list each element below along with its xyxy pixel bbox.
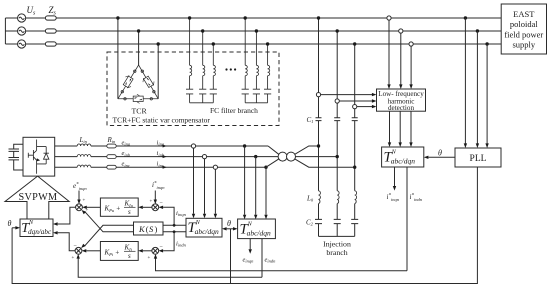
current direction arrow phase b: [163, 155, 167, 158]
current sensor circle column b: [335, 99, 339, 103]
node dot TCR a: [116, 16, 119, 19]
current sensor circle column c: [353, 105, 357, 109]
svg-text:abc/dqn: abc/dqn: [195, 227, 219, 236]
wire i*inqn into U2: [154, 191, 156, 201]
wire bus phase b: [56, 30, 501, 32]
SVPWM block arrow: [5, 176, 69, 219]
wire T1 d output to K(S): [163, 231, 186, 233]
voltage tap dot line c: [264, 166, 267, 169]
FC group1 coil b: [203, 65, 205, 75]
svg-text:abc/dqn: abc/dqn: [391, 157, 415, 166]
current direction arrow phase c: [163, 166, 167, 169]
summing junction U2 (q-axis current error): [152, 204, 159, 211]
node dot i_inqn branch: [173, 224, 176, 227]
node dot i_indn branch: [173, 230, 176, 233]
summing junction U3 (d-axis voltage sum): [75, 247, 82, 254]
node dot TCR b: [137, 29, 140, 32]
node dot FC2 b: [255, 29, 258, 32]
source Us phase b: [18, 27, 26, 35]
wire T1 q output to K(S): [163, 224, 186, 226]
wire converter output phase a: [55, 145, 268, 147]
wire e*inqn into U1: [78, 191, 80, 201]
wire theta into Tdqn/abc: [12, 227, 16, 229]
svg-text:+: +: [86, 209, 89, 214]
svg-text:PLL: PLL: [470, 154, 487, 164]
voltage tap dot line b: [254, 155, 257, 158]
wire i_inqn up to U2: [163, 207, 174, 225]
wire injection bottom bar: [319, 235, 355, 237]
wire fan left bottom: [266, 159, 279, 167]
svg-text:TCR+FC static var compensator: TCR+FC static var compensator: [113, 116, 211, 125]
wire tap a down to T2: [244, 146, 246, 215]
svg-text:field power: field power: [504, 30, 543, 40]
wire sensor b down to T1: [204, 159, 206, 214]
current sensor circle line b: [202, 155, 206, 159]
wire e_indn feedforward to U3: [78, 258, 262, 277]
impedance Zs phase c: [45, 42, 56, 46]
voltage tap dot line a: [243, 144, 246, 147]
wire tap c down to T2: [265, 167, 267, 215]
transformer windings: [278, 152, 287, 161]
capacitor C1 column c: [352, 118, 358, 121]
transform block Tdqn/abc: [20, 219, 53, 237]
TCR delta reactor-thyristor assembly: [118, 65, 158, 103]
dc-link capacitor upper: [9, 149, 20, 151]
wire phase a to Zs: [26, 17, 46, 19]
svg-text:+: +: [150, 200, 153, 205]
node dot TCR c: [157, 42, 160, 45]
voltage tap circle bus b: [399, 29, 403, 33]
PI controller block d-axis: [100, 242, 138, 261]
dc-link wire middle: [13, 151, 15, 157]
node dot FC1 a: [188, 16, 191, 19]
block PLL: [455, 148, 501, 167]
wire theta PLL to Tabc/dqn: [429, 156, 456, 158]
wire U3 output to Tdqn/abc: [58, 233, 76, 251]
node dot FC2 a: [244, 16, 247, 19]
voltage tap circle bus c: [409, 42, 413, 46]
node: left source bus vertical: [4, 18, 6, 44]
impedance Zs phase b: [45, 29, 56, 33]
wire converter output phase b: [55, 156, 278, 158]
wire e_inqn output arrow: [249, 239, 251, 250]
wire bus phase c: [56, 43, 501, 45]
wire U2 to PI q-axis: [143, 206, 152, 208]
svg-text:dqn/abc: dqn/abc: [28, 228, 52, 236]
capacitor C1 column b: [334, 118, 340, 121]
thyristor pair bottom leg: [133, 94, 143, 103]
svg-text:poloidal: poloidal: [510, 19, 538, 29]
wire sensor a to harmonic detection: [321, 94, 373, 96]
node dot injection a: [317, 16, 320, 19]
FC group1 coil c: [213, 65, 215, 75]
PI controller block q-axis: [100, 198, 138, 216]
wire TCR drop phase b: [138, 31, 140, 65]
svg-text:θ: θ: [8, 219, 12, 228]
node dot PLL c: [485, 42, 488, 45]
node dot PLL a: [464, 16, 467, 19]
injection branch column c vertical: [354, 44, 356, 236]
wire bus phase a: [56, 17, 501, 19]
injection branch column b vertical: [336, 31, 338, 236]
node dot injection b: [336, 29, 339, 32]
wire reference i*indn down: [406, 167, 408, 271]
svg-text:θ: θ: [227, 219, 231, 228]
wire sensor c to harmonic detection: [357, 106, 372, 108]
wire PLL input a: [464, 18, 466, 144]
source Us phase a: [18, 14, 26, 22]
node dot line a to column a: [317, 144, 320, 147]
svg-text:θ: θ: [438, 149, 442, 158]
block: low-frequency harmonic detection: [377, 89, 426, 111]
FC filter branch group 2: [242, 18, 272, 103]
wire converter output phase c: [55, 166, 266, 168]
svg-text:detection: detection: [388, 104, 414, 112]
wire tap b down to T2: [255, 157, 257, 215]
inductor L0 column a: [319, 191, 321, 204]
svg-text:s: s: [128, 252, 131, 260]
svg-text:abc/dqn: abc/dqn: [247, 229, 271, 238]
wire source stubs: [5, 18, 17, 44]
current sensor circle column a: [316, 93, 320, 97]
wire sensor c down to T1: [214, 169, 216, 214]
dc-link wire top: [14, 144, 23, 149]
wire tap c down to harmonic detection: [410, 46, 412, 84]
impedance Zs phase a: [45, 16, 56, 20]
wire PLL input b: [476, 31, 478, 144]
capacitor C2 column b: [334, 219, 341, 223]
transform block T1 abc/dqn (current measure): [186, 218, 222, 237]
inductor L0 column c: [355, 191, 357, 204]
wire harmonic detection outputs to Tabc/dqn: [390, 111, 412, 142]
node dot injection c: [353, 42, 356, 45]
wire K(S) q output cross-coupled to U3: [85, 225, 134, 246]
resistor Rin phase b: [107, 155, 116, 159]
dashed box: TCR+FC static var compensator: [107, 52, 279, 126]
node dot PLL b: [476, 29, 479, 32]
capacitor C2 column c: [351, 219, 358, 223]
injection branch column a vertical: [318, 18, 320, 236]
node dot line c to column c: [353, 166, 356, 169]
svg-text:branch: branch: [326, 248, 347, 257]
freewheel diode D1: [37, 147, 49, 164]
svg-text:+: +: [72, 256, 75, 261]
wire TCR drop phase c: [157, 44, 159, 99]
wire PI q-axis to U1: [87, 206, 101, 208]
wire sensor a down to T1: [193, 148, 195, 214]
wire i*indn feedback to U4: [156, 258, 408, 271]
inductor Lin phase b: [77, 155, 91, 157]
capacitor C1 column a: [316, 118, 322, 121]
inductor Lin phase a: [77, 144, 91, 146]
resistor Rin phase a: [107, 144, 116, 148]
ellipsis between FC groups: [225, 68, 236, 70]
block EAST poloidal field power supply: [501, 4, 546, 54]
svg-text:+: +: [148, 256, 151, 261]
current direction arrow phase a: [163, 145, 167, 148]
wire i_indn down to U4: [163, 232, 174, 251]
wire U1 output to Tdqn/abc: [58, 207, 76, 224]
current sensor circle line c: [213, 165, 217, 169]
wire PI d-axis to U3: [86, 250, 100, 252]
wire tap b down to harmonic detection: [400, 33, 402, 84]
dc-link wire bottom: [14, 160, 23, 170]
thyristor pair left leg: [121, 74, 135, 89]
wire fan right middle: [296, 156, 338, 158]
node dot line b to column b: [336, 155, 339, 158]
svg-text:+: +: [83, 199, 86, 204]
resistor Rin phase c: [107, 165, 116, 169]
current sensor circle line a: [191, 144, 195, 148]
FC filter branch group 1: [186, 18, 217, 103]
thyristor pair right leg: [141, 74, 155, 89]
svg-text:TCR: TCR: [132, 107, 148, 116]
inductor Lin phase c: [77, 165, 91, 167]
wire theta arrow into T1: [227, 228, 231, 230]
svg-text:SVPWM: SVPWM: [19, 192, 58, 203]
wire phase b to Zs: [26, 30, 46, 32]
wire K(S) d output cross-coupled to U1: [85, 212, 133, 232]
svg-text:FC filter branch: FC filter branch: [210, 106, 258, 115]
wire theta feedback from PLL: [12, 167, 477, 284]
wire U4 to PI d-axis: [143, 250, 152, 252]
dc-link capacitor lower: [9, 158, 20, 160]
inductor L0 column b: [337, 191, 339, 204]
wire fan left top: [268, 146, 279, 154]
svg-text:supply: supply: [512, 40, 535, 50]
wire theta arrow into T2: [231, 228, 234, 230]
wire phase c to Zs: [26, 43, 46, 45]
node dot FC2 c: [266, 42, 269, 45]
decoupling block K(S): [134, 222, 164, 235]
transform block Tabc/dqn (harmonic reference generator): [382, 147, 424, 167]
source Us phase c: [18, 40, 26, 48]
wire e_indn down: [261, 239, 263, 278]
wire PLL input c: [486, 44, 488, 144]
wire tap a down to harmonic detection: [388, 20, 390, 84]
svg-text:): ): [155, 224, 158, 234]
converter (inverter) box: [23, 137, 55, 176]
IGBT Q1 inside converter: [28, 140, 40, 174]
svg-text:EAST: EAST: [513, 9, 535, 19]
node dot FC1 c: [212, 42, 215, 45]
wire reference i*inqn output arrow: [394, 167, 396, 186]
transform block T2 abc/dqn (voltage measure): [238, 219, 276, 239]
wire theta branch vertical: [230, 229, 232, 284]
voltage tap circle bus a: [387, 16, 391, 20]
summing junction U4 (d-axis current error): [152, 247, 159, 254]
wire fan right top: [295, 146, 319, 154]
wire sensor b to harmonic detection: [339, 100, 372, 102]
capacitor C2 column a: [315, 219, 322, 223]
svg-text:s: s: [128, 208, 131, 216]
summing junction U1 (q-axis voltage sum): [76, 204, 83, 211]
wire fan right bottom: [295, 159, 355, 167]
wire TCR drop phase a: [117, 18, 119, 99]
node dot FC1 b: [201, 29, 204, 32]
